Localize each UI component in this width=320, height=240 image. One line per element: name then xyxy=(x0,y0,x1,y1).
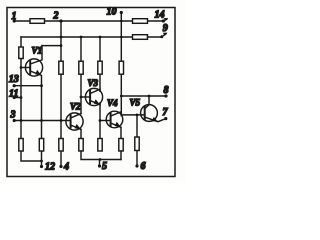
junction dot V5 collector pin8 line xyxy=(148,95,151,98)
node 5 xyxy=(98,164,101,167)
transistor V2 xyxy=(66,102,83,131)
node 12 xyxy=(40,165,43,168)
wire V5 collector riser xyxy=(148,96,150,105)
wire column V2 collector col81 xyxy=(80,37,82,114)
resistor R(col137 bottom) xyxy=(135,137,139,151)
resistor R(rail2-9) xyxy=(133,35,148,40)
junction dot col100-rail2 xyxy=(99,36,102,39)
resistor R(col121 mid) xyxy=(119,61,123,74)
svg-text:V3: V3 xyxy=(88,78,99,88)
svg-text:12: 12 xyxy=(45,162,55,173)
resistor R(col100 mid) xyxy=(98,61,102,74)
svg-text:V4: V4 xyxy=(107,98,118,108)
transistor V4 xyxy=(106,98,123,128)
resistor R(col61 mid) xyxy=(59,61,63,74)
wire column V3 collector col100 xyxy=(99,37,101,91)
junction dot rail3-col61 xyxy=(60,44,63,47)
wire pin13 xyxy=(14,85,41,87)
svg-text:6: 6 xyxy=(141,161,146,172)
svg-text:9: 9 xyxy=(163,23,168,34)
wire column pin10/V4-collector xyxy=(120,13,122,116)
junction dot pin11-col21 xyxy=(20,96,23,99)
junction dot pin3-col61 xyxy=(60,119,63,122)
junction dot V4 base branch xyxy=(99,119,102,122)
junction dot bottom pair to pin12 xyxy=(40,160,43,163)
svg-text:10: 10 xyxy=(107,7,117,18)
resistor R(col81 bottom) xyxy=(79,139,83,152)
node 10 xyxy=(120,11,123,14)
wire pin8 line xyxy=(121,95,166,97)
wire rail1 top +V xyxy=(14,20,163,22)
svg-text:11: 11 xyxy=(9,89,18,100)
node 2 xyxy=(59,19,62,22)
resistor R(col121 bottom) xyxy=(119,139,123,152)
svg-text:V1: V1 xyxy=(32,46,43,56)
resistor R(col100 bottom) xyxy=(98,139,102,152)
svg-text:1: 1 xyxy=(12,11,17,22)
svg-text:V5: V5 xyxy=(130,98,141,108)
wire V3 emitter drop to V4 base xyxy=(99,103,101,139)
resistor R(col81 mid) xyxy=(79,61,83,74)
junction dot col121-pin8 line xyxy=(120,95,123,98)
resistor R(col21 upper) xyxy=(19,47,23,59)
node 1 xyxy=(13,19,16,22)
node 14 xyxy=(162,19,165,22)
node 8 xyxy=(164,94,167,97)
transistor V3 xyxy=(81,78,103,106)
wire pin11 xyxy=(14,97,21,99)
svg-text:8: 8 xyxy=(164,85,169,96)
wire column V1 emitter col41.5 xyxy=(41,86,43,139)
junction dot V3 base col81 xyxy=(80,96,83,99)
junction dot pin6 branch xyxy=(136,114,139,117)
wire V4 emitter drop xyxy=(120,127,122,138)
svg-text:2: 2 xyxy=(53,11,59,22)
wire V2 emitter drop xyxy=(80,129,82,138)
transistor V1 xyxy=(21,46,43,86)
junction dot col121-rail1 xyxy=(120,20,123,23)
node 7 xyxy=(164,117,167,120)
node 6 xyxy=(135,164,138,167)
resistor R(1-2) xyxy=(30,19,45,24)
wire column node2 / col61 xyxy=(60,21,62,139)
wire rail3 V1 collector to node2 column xyxy=(42,45,61,47)
resistor R(col21 bottom) xyxy=(19,139,23,152)
junction dot pin3-col21 xyxy=(20,119,23,122)
svg-text:5: 5 xyxy=(102,161,107,172)
resistor R(10-14) xyxy=(133,19,148,24)
wire column left col21 xyxy=(20,37,22,139)
wire bottom trio rail to pin5 xyxy=(81,151,121,160)
svg-text:14: 14 xyxy=(155,10,165,21)
svg-text:4: 4 xyxy=(63,162,69,173)
svg-text:3: 3 xyxy=(10,110,16,121)
wire pin3 to V2 base xyxy=(14,120,70,122)
junction dot pin3-col41.5 xyxy=(40,119,43,122)
wire pin6 column xyxy=(136,115,138,137)
svg-text:7: 7 xyxy=(163,107,169,118)
wire rail2 xyxy=(21,36,133,38)
resistor R(col61 bottom) xyxy=(59,139,63,152)
svg-text:V2: V2 xyxy=(70,102,81,112)
svg-text:13: 13 xyxy=(9,74,19,85)
resistor R(col41.5 bottom) xyxy=(39,139,43,152)
junction dot V1 base branch xyxy=(20,66,23,69)
node 9 arrow xyxy=(148,36,162,38)
wire V5 base from V4 collector xyxy=(121,114,144,116)
junction dot col81-rail2 xyxy=(80,36,83,39)
transistor V5 xyxy=(130,98,166,122)
junction dot col121-rail2 xyxy=(120,36,123,39)
node 4 xyxy=(59,165,62,168)
junction dot pin13-col41.5 xyxy=(40,84,43,87)
border frame xyxy=(7,8,175,177)
junction dot trio rail pin5 xyxy=(99,158,102,161)
junction dot node2-rail2 xyxy=(60,36,63,39)
